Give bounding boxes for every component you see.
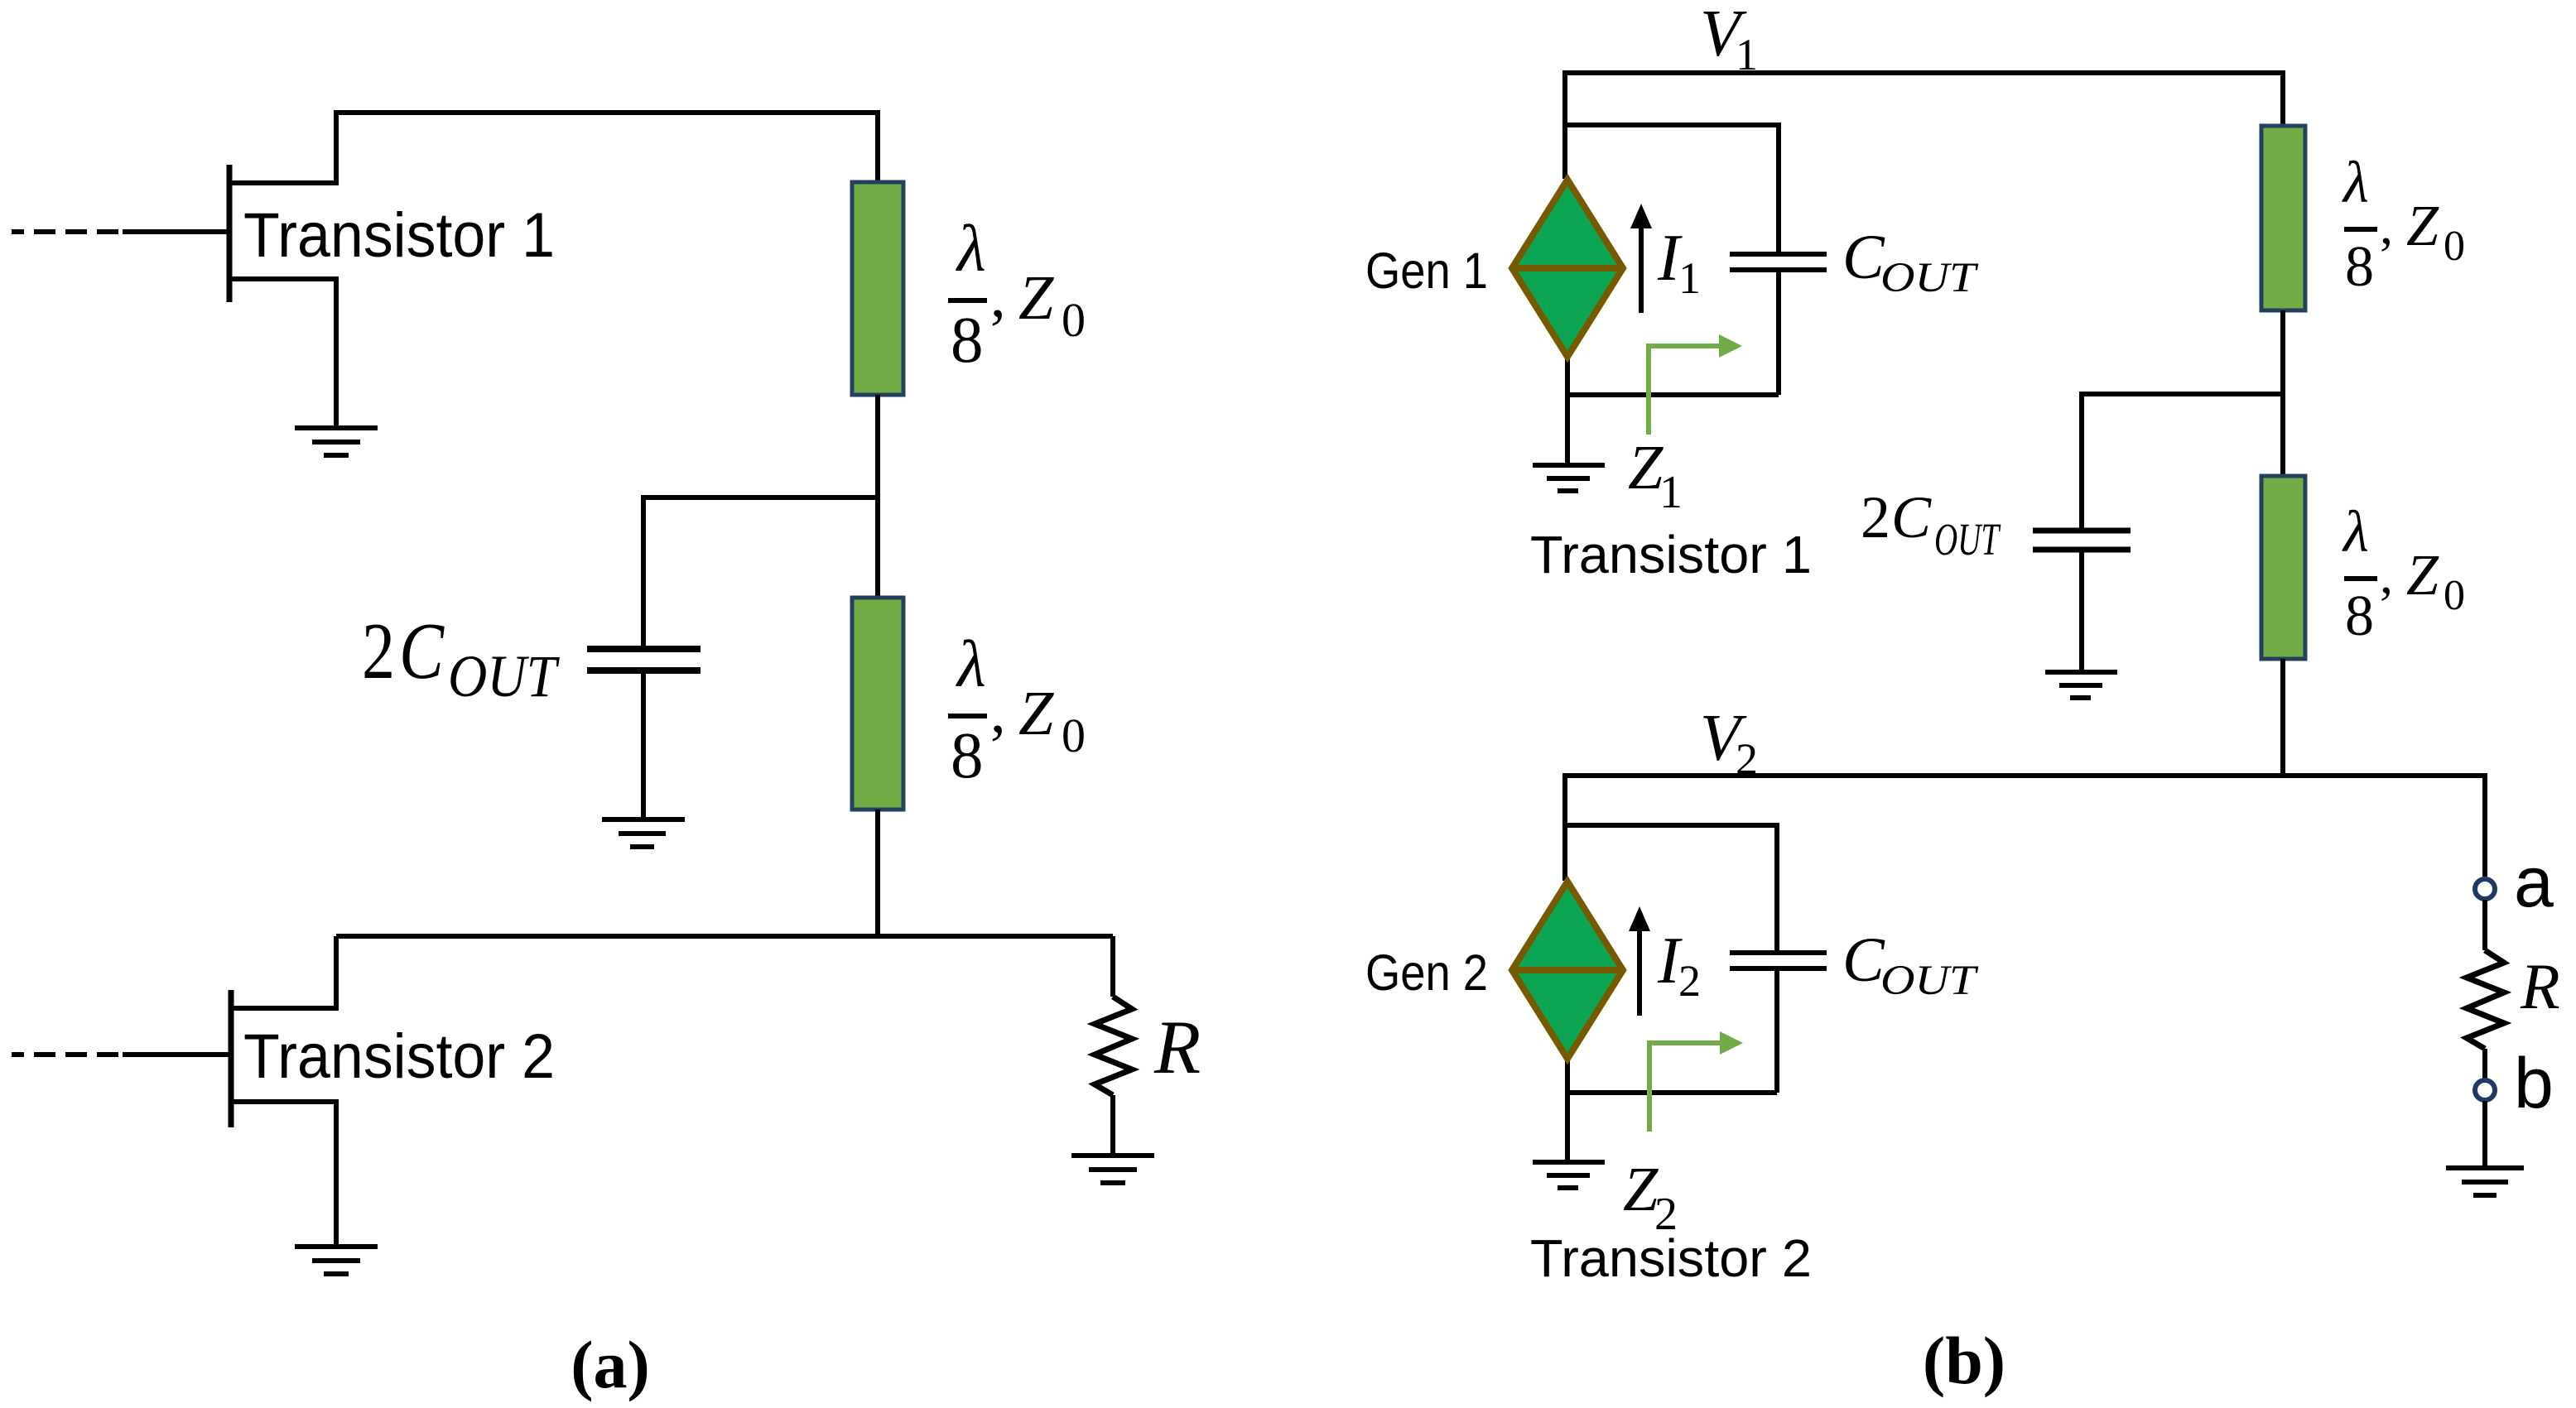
wire TL1 (b) bottom to junction [2280,310,2285,476]
wire resistor top lead (a) [1110,936,1115,997]
svg-text:OUT: OUT [1880,255,1979,301]
wire resistor R (b) to terminal b [2482,1049,2487,1079]
wire TL2 (b) bottom to node V2 [2280,659,2285,776]
wire resistor bottom lead (a) [1110,1095,1115,1153]
arrow Z1 (green bent arrow) [1649,346,1721,435]
wire Gen1 bottom vertical [1565,358,1570,463]
capacitor C_OUT (Gen 1) plates [1730,254,1827,270]
capacitor 2C_OUT (a) plates [587,649,701,670]
svg-text:OUT: OUT [448,643,560,709]
svg-text:OUT: OUT [1880,958,1979,1004]
ground Gen 2 [1533,1162,1605,1188]
label lambda/8,Z0 for TL1 (a) [948,213,1086,377]
svg-text:Z: Z [2406,544,2439,608]
svg-text:C: C [1842,223,1885,292]
label 2C_OUT (a) [362,607,560,709]
wire terminal a to resistor R (b) [2482,900,2487,950]
wire dashed gate stub Transistor 1 [12,229,124,234]
svg-text:Z: Z [1018,679,1054,748]
current source Gen 2 diamond [1512,882,1623,1059]
svg-text:1: 1 [1678,253,1701,303]
transmission line TL1 (a) lambda/8 Z0 [852,182,903,395]
transistor Q1 gate bar [227,165,233,302]
svg-text:C: C [399,607,445,695]
wire dashed gate stub Transistor 2 [12,1052,124,1057]
wire source Transistor 2 to ground [231,1102,336,1244]
svg-text:a: a [2514,843,2554,922]
svg-text:Z: Z [1623,1155,1659,1224]
wire Gen2 bottom node [1567,1090,1777,1095]
wire Gen2 bottom vertical [1565,1060,1570,1162]
svg-text:λ: λ [2342,151,2369,215]
wire Gen1 to C_OUT top [1565,125,1779,252]
transistor Q2 gate bar [229,990,234,1127]
svg-text:8: 8 [951,720,984,792]
svg-text:Z: Z [2406,195,2439,258]
svg-text:2: 2 [1861,484,1890,550]
wire drain Transistor 1 to TL1 top [229,113,878,183]
ground Gen 1 [1533,465,1605,491]
wire TL2 bottom to output node (a) [875,810,880,936]
resistor R (b) zigzag [2467,950,2504,1049]
wire capacitor 2C_OUT (b) top lead [2079,392,2084,528]
wire node V1 top [1565,73,2283,179]
svg-text:R: R [2520,950,2560,1022]
label lambda/8,Z0 for TL2 (a) [948,628,1086,792]
terminal b circle [2475,1080,2495,1100]
svg-text:8: 8 [2345,235,2374,299]
arrow Z2 (green bent arrow) [1649,1043,1721,1132]
svg-text:b: b [2514,1044,2554,1123]
svg-text:(a): (a) [571,1327,650,1402]
svg-text:Transistor 1: Transistor 1 [243,200,555,271]
wire terminal b to ground [2482,1101,2487,1165]
svg-text:Z: Z [1628,433,1664,502]
svg-text:Transistor 2: Transistor 2 [243,1021,555,1092]
wire source Transistor 1 to ground [229,279,336,428]
svg-text:Z: Z [1018,263,1054,333]
svg-text:λ: λ [956,213,986,286]
svg-text:8: 8 [951,305,984,377]
svg-text:Gen 1: Gen 1 [1365,243,1488,299]
svg-text:,: , [2380,545,2393,604]
svg-text:Transistor 1: Transistor 1 [1530,525,1812,584]
arrow I1 [1639,225,1644,313]
arrow I2 [1637,928,1642,1016]
wire Gen2 to C_OUT top [1565,825,1777,950]
wire junction to capacitor 2C_OUT (a) [643,495,878,500]
wire output node horizontal (a) [336,934,1113,939]
ground capacitor 2C_OUT (b) [2045,672,2117,698]
wire capacitor 2C_OUT (b) bottom lead [2079,552,2084,670]
capacitor C_OUT (Gen 2) plates [1730,953,1827,968]
ground capacitor 2C_OUT (a) [602,819,685,847]
wire Gen1 bottom node [1567,392,1779,397]
svg-text:2: 2 [1678,956,1701,1006]
current source Gen 1 diamond [1512,180,1623,357]
wire junction to capacitor 2C_OUT (b) [2082,392,2283,396]
capacitor 2C_OUT (b) plates [2033,531,2131,550]
svg-text:1: 1 [1659,467,1683,518]
wire gate lead Transistor 1 [123,229,229,234]
svg-text:λ: λ [2342,500,2369,565]
svg-text:Transistor 2: Transistor 2 [1530,1228,1812,1288]
resistor R (a) zigzag [1095,997,1132,1095]
svg-text:8: 8 [2345,584,2374,648]
wire C_OUT bottom lead (Gen 2) [1774,971,1779,1093]
svg-text:λ: λ [956,628,986,701]
svg-text:,: , [990,262,1006,330]
svg-text:,: , [2380,196,2393,255]
wire TL1 to TL2 (a) [875,395,880,598]
transmission line TL2 (a) lambda/8 Z0 [852,598,903,810]
transmission line TL1 (b) lambda/8 Z0 [2261,126,2305,310]
svg-text:C: C [1891,484,1932,550]
svg-text:Gen 2: Gen 2 [1365,944,1488,1001]
svg-text:R: R [1153,1005,1201,1089]
wire capacitor bottom lead (a) [641,674,646,818]
svg-text:2: 2 [362,607,395,695]
svg-text:0: 0 [1062,709,1086,762]
ground Transistor 2 source [295,1247,378,1274]
ground resistor branch (b) [2446,1168,2524,1195]
terminal a circle [2475,879,2495,899]
ground Transistor 1 source [295,428,378,455]
svg-text:,: , [990,678,1006,746]
wire drain Transistor 2 [231,936,336,1008]
label lambda/8,Z0 for TL1 (b) [2342,151,2465,299]
svg-text:C: C [1842,925,1885,995]
svg-text:0: 0 [1062,293,1086,347]
label lambda/8,Z0 for TL2 (b) [2342,500,2465,648]
svg-text:0: 0 [2444,223,2465,270]
wire gate lead Transistor 2 [123,1052,231,1057]
transmission line TL2 (b) lambda/8 Z0 [2261,476,2305,659]
wire node V2 horizontal [1565,776,2485,881]
svg-text:OUT: OUT [1934,514,2001,565]
label 2C_OUT (b) [1861,484,2001,565]
svg-text:0: 0 [2444,572,2465,619]
svg-text:(b): (b) [1923,1323,2005,1398]
wire C_OUT bottom lead (Gen 1) [1776,272,1781,395]
ground resistor R (a) [1071,1156,1154,1183]
wire capacitor top lead (a) [641,495,646,646]
